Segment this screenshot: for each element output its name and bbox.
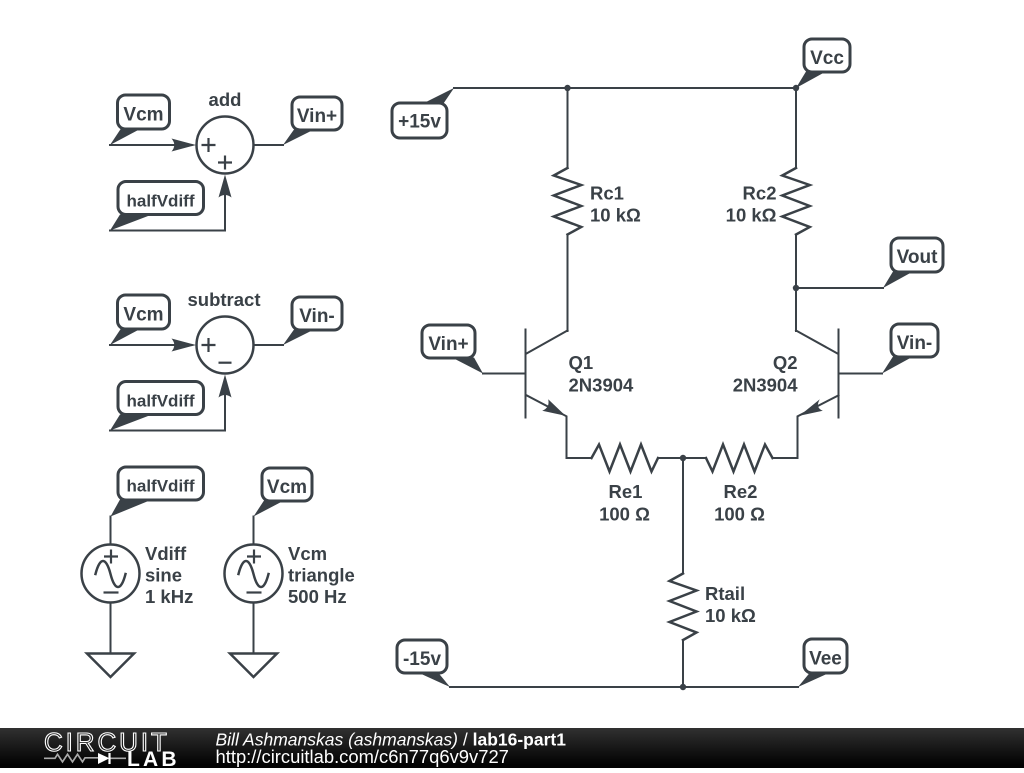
svg-text:add: add — [209, 89, 242, 110]
svg-text:subtract: subtract — [188, 289, 261, 310]
svg-text:Vcc: Vcc — [810, 48, 844, 69]
svg-text:10 kΩ: 10 kΩ — [726, 205, 777, 226]
svg-text:Vcm: Vcm — [288, 543, 327, 564]
svg-text:Re2: Re2 — [724, 481, 758, 502]
svg-text:500 Hz: 500 Hz — [288, 586, 347, 607]
svg-text:Vout: Vout — [897, 247, 938, 268]
svg-text:http://circuitlab.com/c6n77q6v: http://circuitlab.com/c6n77q6v9v727 — [216, 746, 509, 767]
svg-text:-15v: -15v — [403, 649, 441, 670]
svg-text:halfVdiff: halfVdiff — [127, 392, 195, 411]
svg-text:Q2: Q2 — [773, 352, 798, 373]
svg-text:Vdiff: Vdiff — [145, 543, 187, 564]
svg-text:Vin+: Vin+ — [428, 334, 468, 355]
svg-text:Q1: Q1 — [569, 352, 594, 373]
svg-text:100 Ω: 100 Ω — [599, 504, 650, 525]
svg-text:Rc1: Rc1 — [590, 183, 624, 204]
svg-text:Vee: Vee — [809, 649, 842, 670]
svg-text:Vin-: Vin- — [897, 333, 933, 354]
svg-text:Vcm: Vcm — [123, 105, 163, 126]
svg-text:LAB: LAB — [127, 748, 180, 768]
svg-text:10 kΩ: 10 kΩ — [590, 205, 641, 226]
svg-text:Vcm: Vcm — [123, 305, 163, 326]
svg-text:Vin-: Vin- — [299, 306, 335, 327]
svg-text:+15v: +15v — [398, 112, 441, 133]
svg-text:1 kHz: 1 kHz — [145, 586, 193, 607]
svg-text:Re1: Re1 — [609, 481, 643, 502]
svg-text:Rc2: Rc2 — [743, 183, 777, 204]
svg-text:10 kΩ: 10 kΩ — [705, 605, 756, 626]
svg-text:halfVdiff: halfVdiff — [127, 192, 195, 211]
svg-text:2N3904: 2N3904 — [733, 375, 799, 396]
svg-text:sine: sine — [145, 565, 182, 586]
svg-text:halfVdiff: halfVdiff — [127, 477, 195, 496]
svg-text:Vcm: Vcm — [267, 477, 307, 498]
svg-text:2N3904: 2N3904 — [569, 375, 635, 396]
svg-text:triangle: triangle — [288, 565, 355, 586]
svg-text:100 Ω: 100 Ω — [714, 504, 765, 525]
svg-text:Vin+: Vin+ — [297, 106, 337, 127]
svg-text:Rtail: Rtail — [705, 583, 745, 604]
